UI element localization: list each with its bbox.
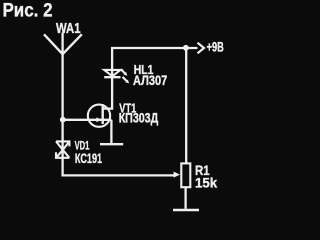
svg-text:КП303Д: КП303Д [119, 111, 159, 126]
svg-text:+9В: +9В [207, 39, 224, 55]
svg-text:КС191: КС191 [75, 151, 102, 167]
svg-text:АЛ307: АЛ307 [133, 73, 168, 88]
svg-text:WA1: WA1 [56, 21, 81, 37]
svg-text:Рис. 2: Рис. 2 [3, 1, 53, 22]
svg-text:15k: 15k [195, 175, 217, 191]
